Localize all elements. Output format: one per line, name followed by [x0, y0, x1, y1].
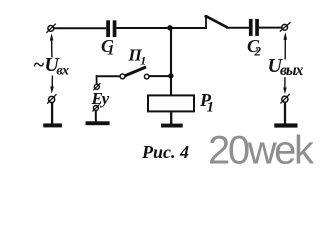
wire C1 to junction: [116, 27, 171, 29]
terminal output bottom: [280, 94, 289, 103]
terminal Ey bottom: [92, 104, 99, 111]
wire input terminal to ground: [51, 102, 53, 124]
terminal output top: [280, 22, 291, 31]
wire junction to switch 2: [171, 27, 207, 29]
terminal input top: [46, 24, 55, 33]
junction node middle: [168, 73, 173, 78]
wire vertical junction to relay P1: [170, 28, 172, 95]
wire output terminal to ground: [284, 102, 286, 124]
capacitor C1: [106, 20, 116, 37]
svg-text:Рис. 4: Рис. 4: [141, 142, 189, 162]
ground output: [274, 123, 297, 127]
wire switch hinge to corner: [96, 75, 120, 77]
switch P1: [120, 67, 149, 79]
wire Ey to ground: [95, 110, 97, 122]
wire switch P1 right contact to junction: [149, 75, 171, 77]
junction node top: [167, 25, 172, 30]
relay P1 box: [148, 95, 194, 111]
terminal Ey top: [93, 83, 100, 90]
wire switch 2 to C2: [226, 27, 249, 29]
terminal input bottom: [47, 94, 56, 103]
input voltage arrow up: [50, 33, 54, 57]
input voltage arrow down: [50, 76, 54, 94]
switch S2 upper contact: [204, 15, 227, 29]
wire corner down to Ey: [96, 75, 98, 84]
ground input: [43, 123, 62, 127]
wire C2 to output terminal: [259, 27, 282, 29]
output voltage arrow down: [283, 77, 287, 94]
capacitor C2: [249, 19, 259, 36]
svg-text:С1: С1: [101, 36, 115, 59]
ground Ey: [86, 121, 110, 125]
wire top-left (input terminal to C1): [54, 27, 107, 29]
svg-text:20wek: 20wek: [208, 129, 315, 173]
ground relay: [161, 124, 183, 128]
svg-text:Еу: Еу: [91, 89, 110, 108]
output voltage arrow up: [283, 32, 287, 59]
wire relay to ground: [170, 112, 172, 124]
